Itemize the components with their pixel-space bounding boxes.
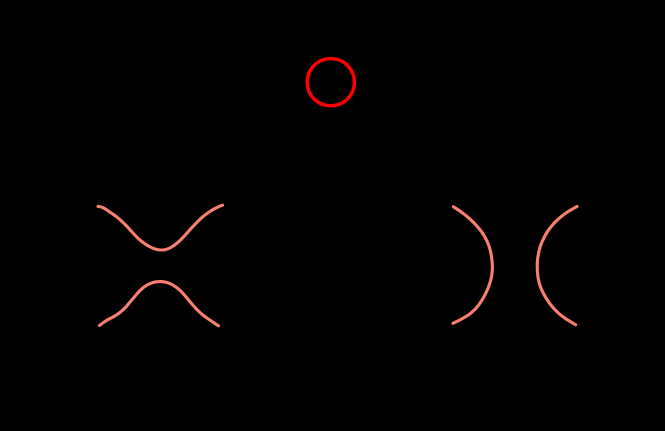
right hyperbola, right branch	[537, 207, 577, 325]
red circle (top center)	[307, 59, 354, 106]
left hyperbola, top branch	[98, 205, 223, 250]
right hyperbola, left branch	[453, 207, 492, 323]
left hyperbola, bottom branch	[100, 282, 219, 326]
